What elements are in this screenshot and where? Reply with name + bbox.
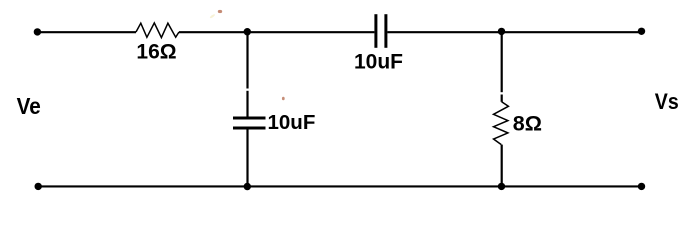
wire top-left (input to R1) — [37, 31, 136, 33]
wire middle branch lower (C2 to bottom wire) — [246, 130, 248, 187]
wire right branch upper (node B down to R2) — [501, 32, 503, 92]
stray red speck artifact top — [218, 10, 222, 13]
wire right branch upper second segment after small gap — [501, 95, 503, 102]
wire middle branch upper (node A down to C2) — [246, 32, 248, 88]
capacitor C1 right plate — [384, 14, 387, 48]
svg-text:10uF: 10uF — [268, 111, 316, 134]
svg-text:16Ω: 16Ω — [136, 40, 176, 63]
wire middle branch upper second segment after small gap — [246, 91, 248, 117]
capacitor C1 left plate — [374, 14, 377, 48]
svg-text:Vs: Vs — [655, 90, 679, 115]
wire top-right (C1 to output) — [387, 31, 641, 33]
node dot bottom-right terminal — [638, 183, 645, 190]
wire right branch lower (R2 to bottom wire) — [501, 145, 503, 187]
wire bottom (full span) — [38, 185, 642, 187]
node dot top-right terminal — [638, 28, 645, 35]
capacitor C2 top plate — [233, 116, 266, 119]
node dot bottom right junction — [498, 183, 505, 190]
node dot bottom middle junction — [244, 183, 251, 190]
stray red speck artifact middle — [282, 97, 285, 101]
capacitor C2 bottom plate — [233, 126, 266, 129]
resistor R2 8ohm (shunt, vertical zigzag) — [494, 102, 509, 145]
node dot B (top right junction) — [498, 28, 505, 35]
node dot top-left terminal — [34, 28, 41, 35]
resistor R1 16ohm (series, horizontal zigzag) — [136, 23, 179, 38]
node dot bottom-left terminal — [35, 183, 42, 190]
wire top-middle (R1 to C1) — [179, 31, 374, 33]
svg-text:10uF: 10uF — [354, 51, 403, 74]
node dot A (top middle junction) — [244, 28, 251, 35]
svg-text:Ve: Ve — [17, 93, 41, 119]
svg-text:8Ω: 8Ω — [513, 111, 542, 135]
stray yellow streak artifact — [209, 14, 215, 19]
